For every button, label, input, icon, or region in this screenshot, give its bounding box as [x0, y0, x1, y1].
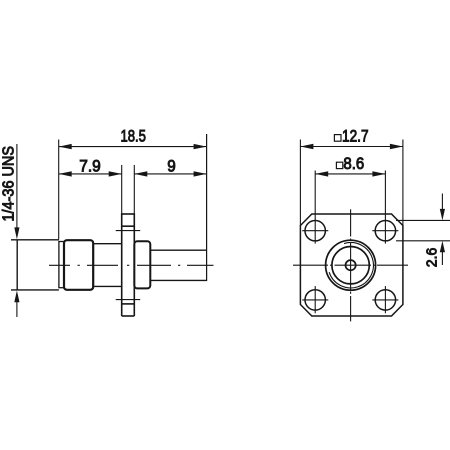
dimension sq 12.7	[300, 140, 403, 227]
square flange outline with chamfered corners	[300, 214, 403, 316]
dimension 7.9	[59, 173, 122, 175]
dimension 2.6 (hole diameter)	[396, 194, 450, 266]
thread callout 1/4-36 UNS leader and arrows	[16, 144, 18, 317]
body cylinder between hex and flange	[93, 244, 122, 287]
svg-text:8.6: 8.6	[343, 154, 364, 173]
dimension sq 8.6	[315, 171, 385, 244]
mounting hole top-right	[375, 221, 395, 241]
flange face extension lines	[122, 165, 135, 214]
mounting hole top-left	[305, 221, 325, 241]
hex nut	[64, 240, 93, 290]
washer ring behind barrel	[59, 242, 64, 288]
flange hole center marks (side view ticks)	[116, 231, 141, 300]
svg-text:18.5: 18.5	[120, 127, 146, 146]
svg-text:1/4-36 UNS: 1/4-36 UNS	[1, 146, 18, 222]
wire: side-view centerline (dash-dot)	[49, 264, 214, 266]
flange plate (side view)	[122, 213, 135, 316]
svg-text:12.7: 12.7	[342, 127, 369, 146]
front-view horizontal centerline	[293, 264, 408, 266]
threaded barrel (left cylinder)	[11, 240, 59, 290]
dimension 18.5	[59, 140, 207, 240]
connector bore circle	[332, 247, 369, 284]
mounting hole bottom-right	[375, 290, 395, 310]
svg-text:9: 9	[167, 156, 176, 175]
svg-text:2.6: 2.6	[424, 248, 441, 268]
front-view vertical centerline	[350, 209, 352, 321]
thread arc (3/4 circle)	[329, 243, 373, 288]
dimension 9	[134, 173, 206, 175]
rear cylinder	[150, 250, 206, 280]
rear end face / right extension line	[206, 134, 208, 281]
center contact circle	[346, 260, 356, 270]
svg-text:7.9: 7.9	[79, 156, 101, 175]
connector outer circle	[326, 240, 376, 290]
mounting hole bottom-left	[305, 290, 325, 310]
shoulder boss behind flange	[134, 241, 150, 288]
